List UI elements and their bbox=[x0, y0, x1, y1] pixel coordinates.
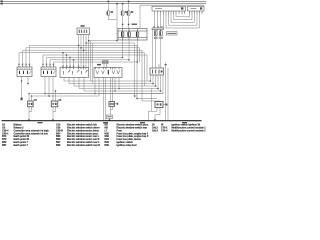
wire motor C grounds bbox=[111, 107, 113, 116]
horn A bbox=[28, 101, 33, 107]
label S1 code bbox=[97, 64, 101, 66]
svg-text:C75-4: C75-4 bbox=[161, 129, 168, 132]
fuse box fuse a bbox=[121, 32, 124, 37]
junction dot F3 drop bbox=[128, 24, 129, 25]
ground bus bbox=[2, 120, 202, 122]
svg-text:Earth point 7: Earth point 7 bbox=[14, 144, 29, 147]
bus line 15 bbox=[2, 3, 207, 5]
module X1 (right middle) bbox=[150, 68, 164, 75]
junction dot F2 drop bbox=[122, 24, 123, 25]
svg-text:Multifunction control module 2: Multifunction control module 2 bbox=[172, 129, 207, 132]
wire relay K2 bottom drops bbox=[44, 77, 46, 94]
wire X1 extra top pins bbox=[153, 30, 166, 76]
horn B bbox=[51, 101, 58, 107]
fuse box fuse b bbox=[128, 32, 131, 37]
svg-text:B30: B30 bbox=[105, 144, 110, 147]
wire right group v1 bbox=[135, 43, 138, 96]
wire box C1 pin feeds bbox=[62, 53, 64, 68]
wire right group v3 bbox=[139, 48, 141, 62]
relay K1 pin numbers bbox=[18, 64, 30, 65]
wire comp B feeds bbox=[55, 91, 57, 101]
legend bbox=[2, 123, 206, 147]
bus line 30 bbox=[2, 0, 207, 2]
motor D bbox=[155, 102, 163, 108]
wire right drop to ground b bbox=[167, 68, 169, 120]
wire fusebox drop b bbox=[128, 40, 130, 60]
fuse box B1 bbox=[118, 29, 147, 41]
svg-text:Electric window switch rear R: Electric window switch rear R bbox=[67, 144, 100, 147]
wire relay K1 bottom drops bbox=[21, 77, 23, 99]
horn A label bbox=[34, 99, 37, 100]
wire gap drop a bbox=[90, 41, 92, 81]
fuse F2 feed bbox=[122, 4, 124, 11]
wire U-loop 3 bbox=[171, 14, 195, 23]
fuse F3 label bbox=[131, 11, 133, 13]
wire T1 drop 3 bbox=[83, 35, 85, 68]
label X1 code bbox=[165, 64, 167, 65]
wire S1 bottom drops bbox=[94, 78, 96, 94]
motor C lead bbox=[115, 103, 118, 105]
band line B6 bbox=[19, 52, 145, 54]
ground label box under motor C bbox=[107, 115, 113, 119]
fuse box fuse c bbox=[136, 32, 139, 37]
band line B2 bbox=[86, 42, 135, 44]
band line B4 bbox=[26, 47, 140, 49]
relay K1 bbox=[17, 65, 32, 76]
wire lamp drops bbox=[155, 39, 157, 69]
label plate right of lamp unit bbox=[167, 32, 178, 35]
fuse F2 bbox=[121, 11, 124, 16]
control unit M2 (top far right box) bbox=[188, 6, 205, 11]
motor C bbox=[109, 102, 115, 107]
wire relay K2 pin feeds bbox=[42, 55, 44, 65]
junction F1 bbox=[108, 1, 110, 3]
fuse F1 feed bbox=[107, 1, 109, 10]
wire horn A grounds bbox=[29, 107, 32, 120]
wire M1 pin 4 drop bbox=[163, 14, 165, 28]
control unit M2 pins bbox=[190, 11, 203, 14]
bulb E1b bbox=[160, 31, 163, 36]
band line B5 bbox=[23, 49, 143, 51]
motor D lead bbox=[163, 104, 166, 106]
control unit M1 pins bbox=[155, 11, 185, 14]
wire F3 to fusebox bbox=[128, 16, 130, 29]
lamp unit E1 connector bottom bbox=[154, 37, 162, 38]
band line B1 bbox=[89, 40, 118, 42]
junction on K1 drop bbox=[21, 80, 22, 81]
fuse F1 bbox=[107, 11, 110, 16]
junction at line 15 x117 bbox=[116, 3, 118, 5]
wire X1 bottom fanout bbox=[64, 75, 151, 81]
bus label 30 bbox=[0, 1, 3, 3]
wire label near drops bbox=[132, 24, 138, 26]
wire F2 to fusebox bbox=[122, 16, 124, 29]
band line B9 bbox=[50, 59, 129, 61]
hatched label above S1 bbox=[103, 61, 109, 64]
wire T1 drop 5 bbox=[88, 35, 90, 68]
fuse F3 feed bbox=[128, 1, 130, 10]
wire x140 from line3 bbox=[139, 5, 141, 28]
fuse F1 label bbox=[111, 11, 113, 13]
connector box C1 (wide left) bbox=[60, 68, 89, 78]
band line B10 bbox=[54, 61, 138, 63]
junction F2 bbox=[122, 3, 124, 5]
wire left drop to ground bbox=[151, 89, 153, 112]
wire T1 drop 1 bbox=[78, 35, 80, 68]
wire U-loop 4 bbox=[174, 14, 193, 20]
wire T1 drop 2 bbox=[80, 35, 82, 68]
band line B7 bbox=[43, 54, 147, 56]
svg-text:100.4: 100.4 bbox=[152, 129, 159, 132]
wire horn B grounds bbox=[53, 107, 56, 120]
wire line3 bbox=[140, 4, 204, 6]
junction dots band bbox=[62, 40, 138, 63]
wire right group v2 bbox=[137, 45, 157, 98]
wire fusebox drop a bbox=[122, 40, 124, 57]
wire gap drop b bbox=[92, 43, 94, 84]
connector box C1 pin numbers bbox=[62, 66, 84, 67]
wire right group v4 bbox=[142, 50, 160, 101]
svg-text:B09: B09 bbox=[56, 144, 61, 147]
junction dots relay drops bbox=[27, 83, 49, 97]
wire fusebox drop c bbox=[137, 40, 139, 62]
wire C1 bottom drops bbox=[63, 78, 65, 82]
wire relay K1 pin feeds bbox=[18, 53, 20, 66]
junction dots lower band bbox=[28, 80, 161, 99]
bulb E1a bbox=[154, 31, 157, 36]
wire S1 label stubs bbox=[104, 64, 107, 68]
bus label 15 bbox=[0, 3, 3, 5]
junction F3 bbox=[128, 1, 130, 3]
relay K2 pin numbers bbox=[42, 64, 54, 65]
lamp E1 pin numbers bbox=[153, 26, 162, 27]
switch box S1 (wide right) bbox=[94, 68, 122, 78]
connector unit T1 (top middle-left) bbox=[77, 28, 90, 35]
wire U-loop 5 bbox=[176, 14, 190, 17]
wire M1 pin drops to lamp unit bbox=[154, 14, 156, 28]
wire fuse F1 loop bbox=[108, 4, 117, 20]
wire U-loop 1 bbox=[166, 14, 200, 28]
band line B8 bbox=[47, 56, 123, 58]
wire right group v5 bbox=[144, 53, 146, 86]
wire right group v6 bbox=[146, 55, 148, 81]
wire motor D grounds bbox=[149, 108, 161, 121]
horn B label bbox=[58, 99, 61, 100]
wire T1 drop 4 bbox=[85, 35, 87, 68]
svg-text:Ignition relay feed: Ignition relay feed bbox=[117, 144, 137, 147]
fuse F3 bbox=[127, 11, 130, 16]
fuse F2 label bbox=[125, 11, 127, 13]
junction dots S1 drops bbox=[94, 88, 119, 94]
ground tick labels bbox=[38, 122, 188, 123]
wire x117 down to band bbox=[116, 20, 118, 41]
band line B3 bbox=[30, 44, 138, 46]
lamp unit E1 connector top bbox=[152, 28, 164, 31]
wire comp A feeds bbox=[28, 94, 30, 102]
svg-text:B57: B57 bbox=[2, 144, 7, 147]
relay K2 bbox=[41, 65, 56, 76]
control unit M1 (top right box) bbox=[152, 6, 186, 11]
wire U-loop 2 bbox=[169, 14, 198, 25]
label above T1 bbox=[81, 25, 85, 27]
wire right drop to ground a bbox=[165, 75, 167, 120]
